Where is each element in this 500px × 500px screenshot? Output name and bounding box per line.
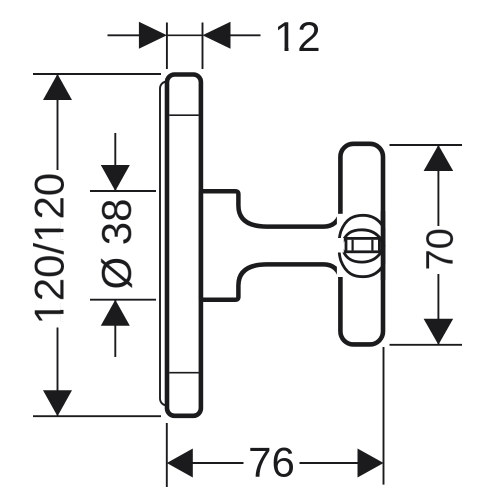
dim 120/120: line lower	[57, 328, 59, 417]
flange (seal behind plate)	[160, 82, 184, 406]
dim 120/120: extension line top	[33, 73, 161, 75]
dim D38: tick top	[90, 190, 156, 192]
dim D38: arrow down	[101, 165, 130, 191]
handle right edge restore	[381, 211, 386, 280]
dim D38: line upper	[114, 133, 116, 191]
serif trim for rotated digit 1s	[60, 221, 64, 229]
hub barrel	[339, 215, 384, 276]
hub side gap eraser	[336, 238, 344, 253]
dim 76: extension line right	[383, 347, 385, 485]
svg-text:Ø 38: Ø 38	[93, 198, 140, 289]
svg-text:76: 76	[248, 439, 295, 486]
svg-text:120/120: 120/120	[26, 173, 73, 325]
hub eraser	[337, 214, 381, 277]
dim 70: arrow up	[424, 145, 454, 171]
dim 120/120: arrow up	[43, 74, 72, 100]
dim 76: arrow right	[358, 449, 384, 478]
dim 120/120: arrow down	[43, 390, 72, 416]
dim D38: tick bottom	[90, 299, 156, 301]
dim 12: line right	[225, 34, 261, 36]
plate interior line bottom	[169, 372, 198, 374]
dim 76: extension line left	[166, 423, 168, 487]
hub label plate	[346, 238, 379, 251]
dim 120/120: extension line bottom	[33, 415, 161, 417]
hub label divider right	[371, 240, 373, 251]
dim 70: arrow down	[424, 319, 454, 345]
dim 70: line lower	[437, 274, 439, 345]
dim 12: extension line left	[166, 23, 168, 70]
svg-text:70: 70	[420, 228, 462, 270]
handle bar	[340, 144, 383, 345]
dim D38: line lower	[114, 300, 116, 357]
hub lens	[341, 230, 384, 262]
dim D38: arrow up	[101, 300, 130, 326]
dim 12: arrow left	[139, 22, 167, 49]
dim 70: extension line bottom	[390, 344, 463, 346]
dim 76: line left	[192, 462, 244, 464]
dim 12: line middle	[167, 34, 203, 36]
dim 12: extension line right	[202, 23, 204, 70]
serif trim for digit 1	[276, 48, 285, 52]
dim 70: line upper	[437, 145, 439, 226]
sleeve and stem outline	[201, 191, 341, 299]
dim 76: line right	[300, 462, 359, 464]
dim 12: line left	[108, 34, 146, 36]
dim 120/120: line upper	[57, 74, 59, 170]
dim 12: arrow right	[203, 22, 231, 49]
dim 76: arrow left	[167, 449, 193, 478]
svg-text:12: 12	[274, 13, 321, 60]
hub label divider left	[352, 240, 354, 251]
escutcheon plate (side view)	[167, 75, 201, 416]
plate interior line top	[169, 114, 198, 116]
dim 70: extension line top	[390, 144, 463, 146]
